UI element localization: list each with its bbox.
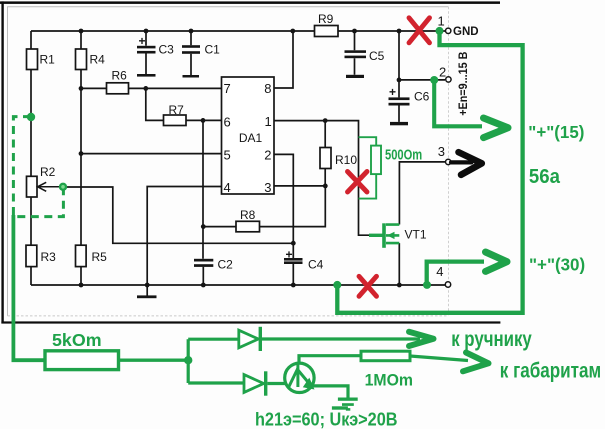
green wire to handbrake arrow xyxy=(262,337,420,340)
wire pin4 to ground xyxy=(147,187,221,296)
svg-text:+: + xyxy=(389,85,396,99)
wire connector2 xyxy=(399,79,445,81)
outer page border left xyxy=(1,1,3,323)
svg-text:к ручнику: к ручнику xyxy=(451,328,532,351)
svg-text:R7: R7 xyxy=(169,103,185,117)
annotation resistor 500Om xyxy=(359,137,382,198)
black arrow at pin 3 xyxy=(451,152,482,175)
svg-text:R6: R6 xyxy=(112,68,128,82)
wire pin3 xyxy=(274,185,325,187)
resistor R4 xyxy=(76,49,106,70)
red X cut top rail xyxy=(409,18,430,43)
green node pin2 xyxy=(430,76,438,84)
red X cut bottom rail xyxy=(359,276,377,296)
green wire emitter to ground xyxy=(312,386,349,398)
capacitor C4 xyxy=(284,243,324,285)
green wire to 5kOm xyxy=(13,215,45,360)
transistor Q VT1 mosfet xyxy=(369,223,427,248)
wire R6 to pin7 xyxy=(81,87,222,89)
resistor R7 xyxy=(164,103,187,126)
svg-text:R1: R1 xyxy=(40,53,56,67)
arrow to handbrake xyxy=(409,332,434,346)
svg-text:7: 7 xyxy=(224,81,231,96)
green node on R1-R2 wire xyxy=(27,113,35,121)
svg-text:4: 4 xyxy=(436,264,443,279)
wire R2 wiper to C4 top xyxy=(66,187,293,243)
green wire +15 from pin2 xyxy=(434,80,482,126)
wire C3 stem xyxy=(145,31,147,74)
wire left column R1-R2-R3 x=31 xyxy=(30,31,32,285)
svg-text:3: 3 xyxy=(438,144,445,159)
svg-text:C1: C1 xyxy=(205,42,221,56)
green ring at R2 wiper xyxy=(60,184,66,190)
svg-text:+: + xyxy=(139,34,146,48)
op-amp U1 DA1 box xyxy=(222,77,275,195)
svg-text:R3: R3 xyxy=(41,250,57,264)
svg-text:C2: C2 xyxy=(218,257,234,271)
potentiometer R2 xyxy=(27,165,64,197)
resistor R1 xyxy=(27,49,56,70)
svg-text:1: 1 xyxy=(438,13,445,28)
ground symbol green xyxy=(338,398,358,411)
resistor 1MOm xyxy=(361,351,413,389)
wire bottom rail y=285 xyxy=(31,284,445,286)
green node GND pin1 xyxy=(436,27,444,35)
svg-text:h21э=60; Uкэ>20В: h21э=60; Uкэ>20В xyxy=(255,408,398,429)
outer page border top xyxy=(0,1,500,4)
svg-text:"+"(30): "+"(30) xyxy=(529,254,585,274)
svg-text:500Om: 500Om xyxy=(385,146,422,163)
svg-text:DA1: DA1 xyxy=(239,131,263,145)
connector pin 2 xyxy=(439,64,451,82)
capacitor C6 xyxy=(389,85,430,125)
diode D2 xyxy=(244,371,267,395)
svg-text:"+"(15): "+"(15) xyxy=(528,122,584,142)
arrow to gabarity xyxy=(463,353,489,372)
transistor Q2 bjt xyxy=(285,363,315,393)
resistor R6 xyxy=(107,68,129,94)
wire C6 bottom xyxy=(398,105,400,122)
red X cut at 500Om xyxy=(348,172,368,193)
svg-text:R8: R8 xyxy=(240,208,256,222)
green node pin4 xyxy=(423,281,431,289)
connector pin 1 GND xyxy=(438,13,479,38)
svg-text:VT1: VT1 xyxy=(405,227,427,241)
capacitor C2 xyxy=(194,257,233,271)
svg-text:C3: C3 xyxy=(159,42,175,56)
svg-text:1: 1 xyxy=(265,114,272,129)
svg-text:56a: 56a xyxy=(529,166,560,188)
svg-text:4: 4 xyxy=(224,180,231,195)
wire C6 riser xyxy=(398,31,400,97)
resistor R10 xyxy=(320,148,357,169)
wire pin1 to gate riser xyxy=(274,121,370,236)
svg-text:R9: R9 xyxy=(318,12,334,26)
outer page border bottom xyxy=(1,321,500,323)
svg-text:C4: C4 xyxy=(308,257,324,271)
green wire to transistor base xyxy=(267,382,286,385)
svg-text:к габаритам: к габаритам xyxy=(500,360,601,383)
svg-text:+: + xyxy=(286,248,293,262)
svg-text:6: 6 xyxy=(224,114,231,129)
svg-text:5: 5 xyxy=(224,147,231,162)
green node junction xyxy=(184,356,192,364)
schematic frame xyxy=(8,7,449,316)
wire connector3 to drain xyxy=(399,162,445,225)
wire C5 stem xyxy=(354,31,356,75)
wire R10 column xyxy=(324,121,326,186)
svg-text:R2: R2 xyxy=(40,165,56,179)
connector pin 4 xyxy=(436,264,450,287)
svg-text:R10: R10 xyxy=(335,153,357,167)
green wire top branch xyxy=(188,338,239,341)
svg-text:8: 8 xyxy=(264,81,271,96)
svg-text:R5: R5 xyxy=(92,250,108,264)
wire pin5 xyxy=(81,153,222,155)
svg-text:R4: R4 xyxy=(90,53,106,67)
resistor R3 xyxy=(26,245,56,266)
svg-text:5kOm: 5kOm xyxy=(52,330,102,350)
ground bar xyxy=(137,295,157,298)
resistor R5 xyxy=(76,245,108,266)
wire top supply rail y=31 xyxy=(31,30,445,32)
green wire bottom branch xyxy=(188,381,245,384)
svg-text:2: 2 xyxy=(439,64,446,79)
arrow +15 xyxy=(484,118,509,138)
resistor 5kOm xyxy=(45,330,119,370)
wire R8 riser xyxy=(203,186,325,227)
wire C1 stem xyxy=(190,31,192,75)
connector pin 3 xyxy=(438,144,451,164)
capacitor C3 xyxy=(137,34,174,77)
wire R7 riser and pin6 xyxy=(146,88,222,120)
green dashed box around R2 xyxy=(13,117,63,217)
resistor R9 xyxy=(315,12,339,36)
wire second column R4-R5 x=81 xyxy=(80,31,82,285)
svg-text:3: 3 xyxy=(264,180,271,195)
svg-text:C5: C5 xyxy=(369,49,385,63)
wire pin2 riser to C4 xyxy=(274,154,293,243)
wire source to rail xyxy=(398,243,400,285)
diode D1 xyxy=(239,327,262,351)
green junction riser xyxy=(187,339,190,383)
wire C2 bottom xyxy=(202,267,204,285)
green wire 5kOm to junction xyxy=(119,359,189,362)
svg-text:GND: GND xyxy=(453,25,479,38)
green wire GND loop right side xyxy=(337,31,522,313)
svg-text:1MOm: 1MOm xyxy=(365,371,413,389)
green wire collector to 1MOm xyxy=(299,356,361,363)
svg-text:C6: C6 xyxy=(414,89,430,103)
green node bottom rail xyxy=(333,281,341,289)
resistor R8 xyxy=(236,208,260,232)
svg-text:2: 2 xyxy=(264,147,271,162)
green wire to gabarity arrow xyxy=(410,356,468,361)
green wire +30 from pin4 xyxy=(427,262,484,285)
wire pin8 riser xyxy=(274,31,293,88)
svg-text:+En=9...15 В: +En=9...15 В xyxy=(458,52,471,116)
capacitor C1 xyxy=(182,42,220,77)
overline on Uke xyxy=(332,406,348,409)
arrow +30 xyxy=(486,252,508,271)
capacitor C5 xyxy=(345,49,385,78)
wire C2 column from pin6 xyxy=(202,120,204,258)
